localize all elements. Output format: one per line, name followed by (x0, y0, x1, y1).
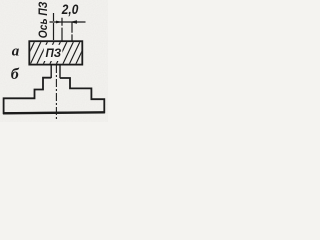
centerline (dash-dot vertical axis through base) (55, 65, 57, 120)
arrowhead right-pointing at x=62 (56, 21, 62, 24)
stepped base outline (4, 78, 105, 114)
white label window inside block (44, 45, 63, 61)
svg-text:ПЗ: ПЗ (46, 48, 62, 60)
svg-text:2,0: 2,0 (61, 1, 79, 17)
paper background (0, 0, 108, 122)
stem right line (59, 65, 61, 79)
hatching inside block (24, 41, 87, 65)
svg-text:б: б (11, 66, 20, 83)
dimension line 2,0 (50, 21, 86, 23)
svg-text:а: а (12, 43, 20, 59)
extension line (right vertical) (71, 22, 73, 41)
stem left line (50, 65, 52, 78)
extension line (middle vertical) (61, 18, 63, 41)
base bottom thick line (3, 112, 105, 113)
hatched block ПЗ : outline (29, 41, 82, 64)
svg-text:Ось ПЗ: Ось ПЗ (38, 1, 50, 38)
arrowhead left-pointing at x=70.8 (70, 20, 77, 23)
axis line: ось ПЗ (dash-dot vertical) (53, 13, 55, 41)
